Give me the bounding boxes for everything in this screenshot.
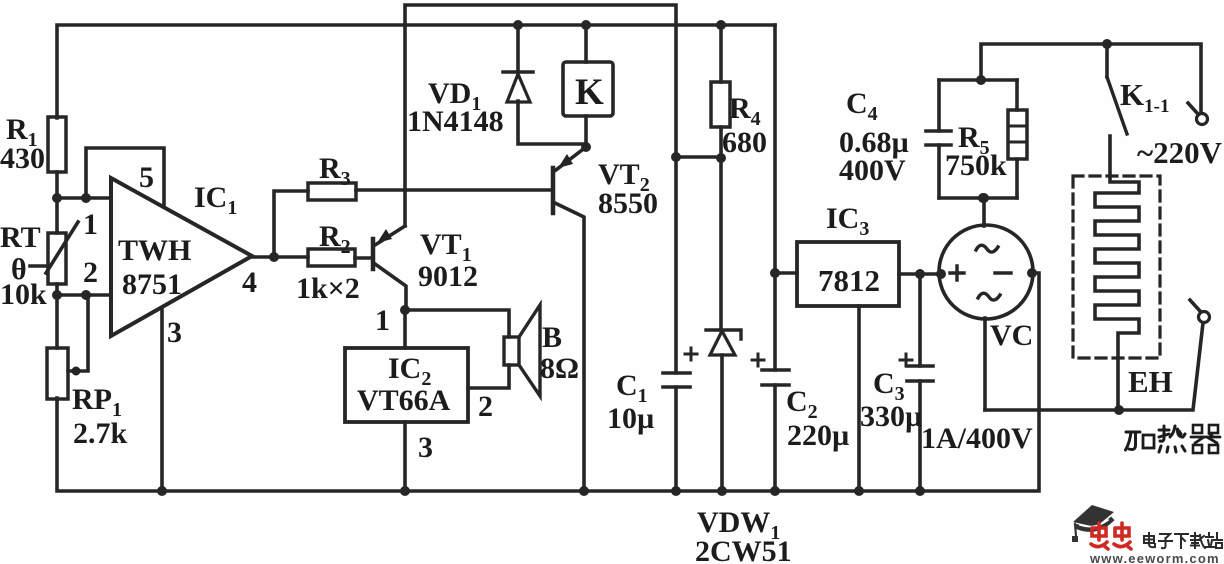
svg-text:C4: C4 (846, 87, 878, 125)
junction (981,80) (976, 75, 986, 85)
junction (57,295) (52, 290, 62, 300)
diode VD1 1N4148 (516, 25, 520, 72)
resistor R1 (48, 117, 66, 172)
svg-text:3: 3 (167, 316, 182, 349)
svg-text:RT: RT (0, 221, 41, 254)
zhan (1206, 533, 1222, 548)
capacitor C2 (762, 370, 789, 385)
junction (86,295) (81, 290, 91, 300)
terminal upper ~220V (1197, 114, 1208, 125)
junction (721,158) (716, 153, 726, 163)
switch K1-1 (1105, 44, 1109, 77)
junction (676,491) (671, 486, 681, 496)
junction (1107,44) (1102, 39, 1112, 49)
char re (1159, 426, 1185, 452)
svg-text:2: 2 (83, 256, 98, 289)
wire IC1 pin3 to ground (160, 308, 164, 491)
junction (162,491) (157, 486, 167, 496)
zener VDW1 2CW51 (719, 158, 723, 330)
zai (1191, 533, 1205, 548)
IC2 VT66A (403, 310, 407, 348)
svg-text:8Ω: 8Ω (540, 352, 579, 385)
svg-text:220µ: 220µ (787, 419, 849, 452)
svg-text:IC3: IC3 (826, 202, 869, 240)
svg-text:400V: 400V (839, 154, 906, 187)
wire regulated top box (405, 5, 676, 373)
potentiometer RP1 (55, 295, 59, 348)
svg-text:VC: VC (990, 319, 1033, 352)
capacitor C3 (918, 274, 922, 491)
junction (721,25) (716, 20, 726, 30)
dian (1144, 533, 1155, 547)
junction (586,147) (581, 142, 591, 152)
svg-text:R3: R3 (319, 152, 351, 190)
svg-text:7812: 7812 (818, 263, 880, 298)
resistor R4 (719, 25, 723, 82)
svg-text:C2: C2 (786, 385, 818, 423)
junction (86,198) (81, 193, 91, 203)
capacitor C4 / resistor R5 parallel loop (939, 80, 1017, 198)
svg-text:TWH: TWH (118, 234, 191, 267)
junction (676,157) (671, 152, 681, 162)
svg-text:R4: R4 (729, 92, 761, 130)
svg-text:~220V: ~220V (1137, 135, 1223, 170)
wire C2 column from rail down (773, 25, 777, 491)
svg-text:8751: 8751 (122, 268, 182, 301)
wire pin4 output node (252, 255, 308, 259)
junction (518,25) (513, 20, 523, 30)
svg-text:EH: EH (1128, 364, 1173, 399)
svg-text:430: 430 (0, 142, 45, 175)
thermistor RT (55, 198, 59, 233)
svg-text:R2: R2 (319, 220, 351, 258)
svg-text:K: K (575, 72, 604, 113)
black site name (1144, 533, 1222, 548)
svg-text:2: 2 (478, 390, 493, 423)
wire pin5 feedback box (86, 148, 164, 207)
cap icon (1073, 505, 1114, 527)
label heater (1126, 425, 1221, 453)
junction (1032,273) (1027, 268, 1037, 278)
wire R3 to VT2 base (356, 188, 553, 192)
svg-text:1k×2: 1k×2 (296, 272, 360, 305)
red chong chong (1091, 523, 1131, 549)
xia (1175, 534, 1188, 548)
junction (920,274) (915, 269, 925, 279)
zi (1159, 534, 1172, 548)
svg-text:B: B (542, 321, 562, 354)
svg-text:3: 3 (418, 431, 433, 464)
regulator IC3 7812 (775, 271, 797, 275)
svg-text:1N4148: 1N4148 (407, 105, 504, 138)
svg-text:680: 680 (722, 126, 767, 159)
svg-text:1A/400V: 1A/400V (921, 422, 1033, 455)
svg-text:8550: 8550 (598, 187, 658, 220)
junction (775,491) (770, 486, 780, 496)
junction (859,491) (854, 486, 864, 496)
transistor VT1 9012 (371, 239, 376, 269)
junction (722,491) (717, 486, 727, 496)
heater element EH (1095, 136, 1139, 410)
char jia (1126, 432, 1155, 450)
speaker B (405, 310, 509, 337)
svg-text:1: 1 (83, 208, 98, 241)
wire AC rail (981, 44, 1201, 113)
capacitor C1 (663, 373, 690, 387)
svg-text:750k: 750k (945, 149, 1007, 182)
svg-text:www.eeworm.com: www.eeworm.com (1089, 551, 1220, 564)
svg-text:330µ: 330µ (860, 400, 922, 433)
relay K (584, 25, 588, 62)
wire top supply rail (57, 25, 775, 118)
svg-text:1: 1 (375, 304, 390, 337)
junction (405,310) (400, 305, 410, 315)
transistor VT2 8550 (551, 168, 556, 213)
svg-text:K1-1: K1-1 (1120, 77, 1169, 117)
svg-text:IC1: IC1 (194, 181, 237, 219)
junction (941,274) (936, 269, 946, 279)
watermark logo (1072, 505, 1222, 564)
svg-text:2CW51: 2CW51 (695, 535, 792, 564)
wire heater bottom to terminal (985, 323, 1203, 410)
svg-text:10µ: 10µ (607, 402, 654, 435)
resistor R2 (308, 249, 355, 266)
junction (984,198) (979, 193, 989, 203)
terminal lower (1199, 312, 1210, 323)
svg-text:10k: 10k (0, 278, 47, 311)
junction (405,491) (400, 486, 410, 496)
svg-text:RP1: RP1 (72, 383, 122, 421)
svg-text:4: 4 (242, 266, 257, 299)
resistor R3 (308, 183, 356, 200)
op-amp IC1 TWH8751 (111, 178, 252, 336)
bridge rectifier VC (939, 225, 1033, 319)
junction (586,25) (581, 20, 591, 30)
char qi (1191, 425, 1220, 453)
svg-text:VT66A: VT66A (357, 384, 451, 417)
wire pin2 row (57, 293, 111, 297)
svg-text:5: 5 (139, 161, 154, 194)
svg-text:2.7k: 2.7k (73, 417, 128, 450)
junction (274,257) (269, 252, 279, 262)
junction (1119,410) (1114, 405, 1124, 415)
wire ground rail (57, 273, 1039, 491)
wire pin1 row (57, 196, 111, 200)
junction (57,198) (52, 193, 62, 203)
wire zener node (676, 155, 721, 159)
svg-text:9012: 9012 (418, 260, 478, 293)
junction (920,491) (915, 486, 925, 496)
junction (983,198) (978, 193, 988, 203)
junction (584,491) (579, 486, 589, 496)
junction (775,273) (770, 268, 780, 278)
